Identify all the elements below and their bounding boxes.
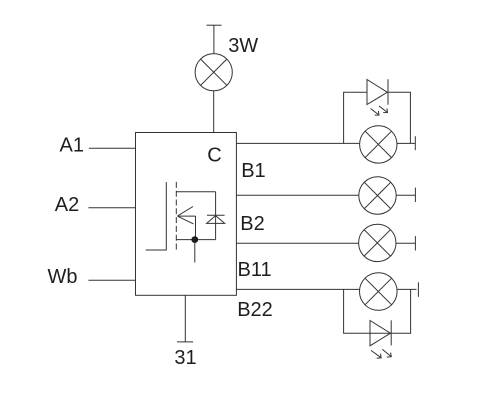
lamp E4 (circle with X) <box>359 224 396 261</box>
LED V1 (diode symbol) <box>367 79 388 105</box>
svg-text:A2: A2 <box>55 194 79 216</box>
wire lamp E3 to terminal <box>396 194 415 196</box>
wire A1 <box>89 147 136 149</box>
lamp E1 3W (circle with X) <box>195 54 232 91</box>
svg-text:A1: A1 <box>60 134 84 156</box>
wire LED loop top left <box>344 92 367 143</box>
wire to terminal 31 <box>184 295 186 342</box>
wire lamp E1 to module <box>213 91 215 133</box>
svg-text:B22: B22 <box>237 299 273 321</box>
transistor Q1 bulk wire <box>195 216 197 240</box>
lamp E3 (circle with X) <box>359 177 396 214</box>
wire LED loop top right <box>388 92 410 143</box>
wire B1 to lamp E3 <box>236 194 358 196</box>
terminal bar row B2 <box>414 236 416 250</box>
LED V1 arrows <box>371 106 388 115</box>
svg-text:3W: 3W <box>228 35 258 57</box>
diode D1 (body diode) <box>207 192 225 240</box>
LED V2 (diode symbol) <box>370 320 391 346</box>
wire B22 to lamp E5 <box>236 288 359 290</box>
wire source down <box>194 243 196 263</box>
terminal 30 (top bar) <box>207 24 222 26</box>
svg-text:Wb: Wb <box>48 266 78 288</box>
wire LED loop bottom right <box>391 289 410 333</box>
wire LED loop bottom left <box>344 289 370 333</box>
wire lamp E4 to terminal <box>396 242 415 244</box>
wire C to lamp E2 <box>236 142 359 144</box>
wire A2 <box>88 207 135 209</box>
svg-text:B11: B11 <box>238 259 272 281</box>
transistor Q1 gate <box>146 182 167 250</box>
LED V2 arrows <box>371 349 391 358</box>
terminal 31 (bottom bar) <box>177 341 193 343</box>
terminal bar row C <box>414 136 416 150</box>
transistor Q1 source lead <box>176 239 215 241</box>
terminal bar row B1 <box>414 188 416 202</box>
svg-text:B2: B2 <box>240 213 264 235</box>
wire lamp E2 to terminal <box>397 142 415 144</box>
wire lamp E5 to terminal <box>397 288 416 290</box>
wire B2 to lamp E4 <box>236 242 358 244</box>
lamp E2 (circle with X) <box>360 126 397 163</box>
wire terminal to lamp E1 <box>213 25 215 54</box>
svg-text:C: C <box>207 144 221 166</box>
lamp E5 (circle with X) <box>360 273 398 311</box>
terminal bar row B22 <box>417 282 419 297</box>
transistor Q1 drain lead <box>176 191 215 193</box>
svg-text:31: 31 <box>174 347 196 369</box>
module U1 (box outline) <box>136 133 237 296</box>
node S (junction dot) <box>191 236 198 243</box>
svg-text:B1: B1 <box>241 160 265 182</box>
transistor Q1 channel (dashed) <box>175 182 177 250</box>
transistor Q1 arrow <box>178 207 196 224</box>
wire Wb <box>88 279 135 281</box>
